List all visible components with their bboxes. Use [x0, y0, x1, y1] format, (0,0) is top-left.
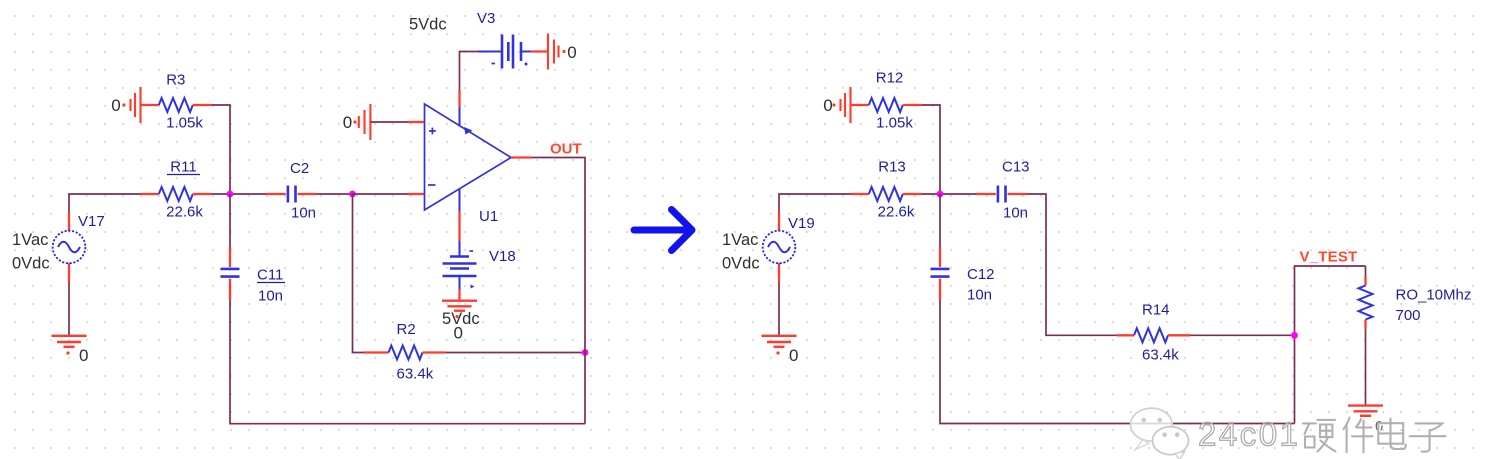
watermark glyph ying (hard) [1303, 420, 1337, 453]
svg-text:24c01: 24c01 [1198, 416, 1300, 453]
svg-text:0: 0 [111, 96, 120, 115]
junction node B (inverting input node) [349, 191, 356, 198]
resistor R2 [364, 321, 445, 383]
wire R12 right down to node C [922, 105, 940, 194]
wire node C to C13 [940, 193, 976, 195]
svg-text:22.6k: 22.6k [878, 204, 915, 221]
wire R14 to junction [1190, 334, 1295, 336]
svg-text:V18: V18 [489, 248, 516, 265]
resistor R11 [141, 159, 212, 221]
svg-text:0: 0 [343, 113, 352, 132]
svg-text:C12: C12 [967, 266, 995, 283]
wire R3 right down to node A [212, 105, 230, 194]
svg-text:RO_10Mhz: RO_10Mhz [1396, 287, 1472, 304]
svg-text:1Vac: 1Vac [12, 231, 48, 249]
capacitor C12 [931, 247, 995, 304]
watermark glyph dian (electric) [1378, 419, 1407, 451]
wire op-amp V+ up to V3 [458, 90, 460, 107]
voltage source V19 [722, 212, 815, 282]
svg-text:22.6k: 22.6k [166, 204, 203, 221]
svg-text:10n: 10n [1003, 205, 1028, 222]
power symbol 0 (left of R3) [111, 87, 140, 123]
resistor R3 [141, 72, 213, 132]
svg-text:10n: 10n [291, 205, 316, 222]
wire C12 bottom to bottom rail [940, 300, 1295, 424]
resistor RO_10Mhz [1359, 266, 1472, 329]
wire node C down to C12 [939, 194, 941, 247]
wire RO to ground [1365, 329, 1367, 405]
resistor R14 [1117, 302, 1190, 364]
wire node A to C2 [230, 193, 266, 195]
wire V17 top to R11 row [69, 194, 141, 212]
voltage source V17 [12, 212, 105, 282]
svg-text:V3: V3 [477, 10, 495, 27]
ground 0 (V17) [52, 336, 89, 365]
op-amp U1 [425, 104, 512, 225]
wire node B down to R2 [353, 194, 365, 353]
watermark wechat icon bubble 1 [1131, 408, 1173, 449]
wire R11 to node A [212, 193, 230, 195]
svg-text:V_TEST: V_TEST [1300, 249, 1358, 266]
wire C13 right down to R14 row [1027, 194, 1117, 335]
wire V18 to ground [458, 289, 460, 300]
power symbol 0 (op-amp + input) [343, 104, 371, 140]
wire R2 to OUT vertical [445, 352, 585, 354]
junction R2/OUT [582, 349, 589, 356]
svg-text:V19: V19 [788, 215, 815, 232]
capacitor C11 [221, 247, 286, 305]
svg-text:C13: C13 [1002, 159, 1030, 176]
svg-text:0: 0 [454, 324, 463, 343]
watermark wechat icon bubble 2 [1153, 427, 1189, 459]
junction V_TEST node [1291, 332, 1298, 339]
junction node C [937, 191, 944, 198]
junction node A [227, 191, 234, 198]
wire C11 bottom to bottom rail [230, 300, 585, 424]
svg-text:5Vdc: 5Vdc [409, 16, 447, 34]
power symbol 0 (left of R12) [823, 87, 850, 123]
battery V18 [443, 241, 516, 289]
svg-text:OUT: OUT [550, 141, 582, 158]
wire junction up to V_TEST and down to rail [1295, 266, 1366, 335]
ground 0 (below RO) [1348, 406, 1383, 435]
capacitor C13 [976, 159, 1030, 222]
svg-text:R14: R14 [1142, 302, 1170, 319]
svg-text:63.4k: 63.4k [1142, 347, 1179, 364]
svg-text:C11: C11 [257, 267, 283, 284]
svg-text:0: 0 [567, 43, 576, 62]
wire V19 bottom to ground [778, 282, 780, 335]
battery V3 [409, 10, 548, 69]
svg-text:0Vdc: 0Vdc [722, 255, 760, 273]
svg-text:R12: R12 [876, 70, 904, 87]
wire C2 to node B [317, 193, 353, 195]
resistor R12 [851, 70, 923, 132]
svg-text:V17: V17 [78, 213, 105, 230]
wire V17 bottom to ground [68, 282, 70, 335]
WATERMARK [1131, 408, 1447, 459]
power symbol 0 (right of V3) [548, 34, 577, 70]
svg-text:700: 700 [1396, 307, 1421, 324]
wire op-amp output to OUT corner [511, 156, 532, 158]
svg-text:63.4k: 63.4k [397, 366, 434, 383]
wire + input ground to op-amp [370, 121, 408, 123]
svg-text:0: 0 [823, 96, 832, 115]
arrow [634, 210, 692, 251]
svg-text:0: 0 [789, 346, 798, 365]
wire node A down to C11 [229, 194, 231, 247]
svg-text:1.05k: 1.05k [876, 115, 913, 132]
svg-text:1Vac: 1Vac [722, 231, 758, 249]
svg-text:R3: R3 [166, 72, 185, 89]
wire V19 top to R13 row [779, 194, 851, 212]
wire node B to op-amp minus input [353, 193, 409, 195]
svg-text:0Vdc: 0Vdc [12, 255, 50, 273]
svg-text:1.05k: 1.05k [166, 115, 203, 132]
wire op-amp V- down to V18 [458, 211, 460, 241]
watermark glyph zi (child) [1410, 423, 1447, 452]
capacitor C2 [266, 160, 317, 222]
svg-text:10n: 10n [258, 288, 283, 305]
svg-text:C2: C2 [290, 160, 309, 177]
resistor R13 [851, 159, 922, 221]
svg-text:10n: 10n [967, 287, 992, 304]
wire R13 to node C [922, 193, 940, 195]
watermark glyph jian (piece) [1344, 418, 1374, 454]
ground 0 (V19) [762, 336, 799, 365]
svg-text:0: 0 [79, 346, 88, 365]
svg-text:U1: U1 [479, 208, 498, 225]
svg-text:R13: R13 [878, 159, 906, 176]
ground 0 (below V18) [442, 301, 480, 343]
svg-text:R11: R11 [170, 159, 196, 176]
svg-text:R2: R2 [397, 321, 416, 338]
